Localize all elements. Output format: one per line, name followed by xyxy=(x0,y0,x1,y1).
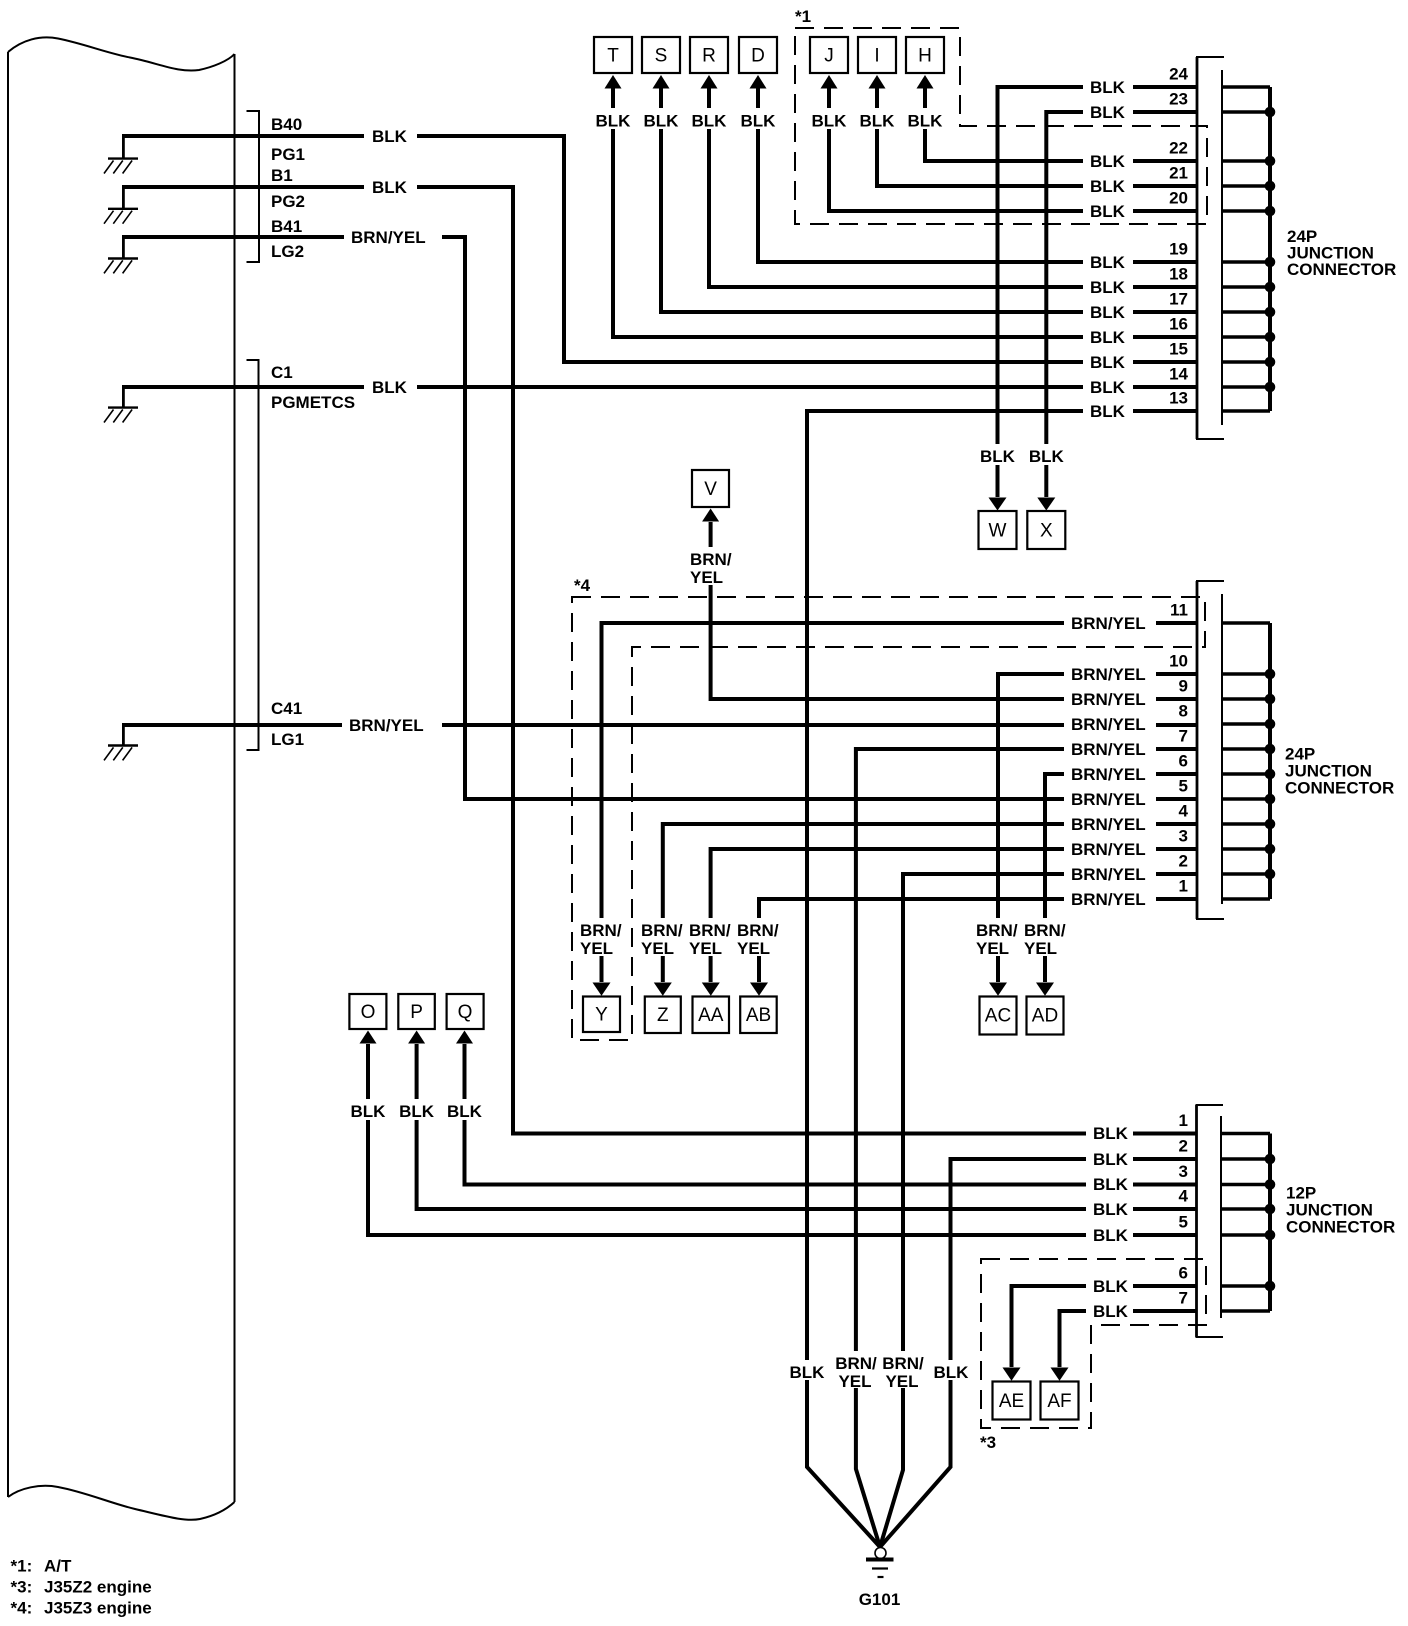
wire C41/LG1 BRN/YEL to 24P#2 pin 8 xyxy=(122,723,1197,727)
svg-text:6: 6 xyxy=(1179,752,1188,771)
svg-text:BRN/: BRN/ xyxy=(976,921,1018,940)
svg-text:BLK: BLK xyxy=(1090,177,1126,196)
svg-text:BLK: BLK xyxy=(1090,402,1126,421)
labels BLK at 12P pins xyxy=(1086,1123,1133,1321)
labels BLK above W X xyxy=(979,444,1065,466)
terminal box AB xyxy=(740,997,777,1034)
label BRN/YEL above V xyxy=(688,547,733,587)
svg-text:19: 19 xyxy=(1169,240,1188,259)
wire I to 24P#1 pin 21 xyxy=(877,88,1197,186)
svg-text:4: 4 xyxy=(1179,1187,1189,1206)
terminal box V xyxy=(692,470,729,507)
svg-text:BLK: BLK xyxy=(372,378,408,397)
svg-text:BRN/YEL: BRN/YEL xyxy=(1071,815,1146,834)
svg-text:YEL: YEL xyxy=(689,939,722,958)
terminal box W xyxy=(979,511,1017,549)
svg-text:BLK: BLK xyxy=(447,1102,483,1121)
wire 24P#1 pin 13 to G101 xyxy=(807,411,1197,1547)
arrowhead into J xyxy=(821,75,838,89)
arrowhead into X xyxy=(1037,498,1055,511)
svg-text:AA: AA xyxy=(698,1005,724,1026)
svg-text:BLK: BLK xyxy=(860,112,896,131)
svg-text:6: 6 xyxy=(1179,1264,1188,1283)
svg-text:BLK: BLK xyxy=(1093,1200,1129,1219)
svg-text:X: X xyxy=(1040,521,1053,542)
wire 24P#2 pin 2 to G101 xyxy=(880,874,1197,1547)
svg-text:YEL: YEL xyxy=(580,939,613,958)
svg-text:20: 20 xyxy=(1169,189,1188,208)
dashed region *3 (J35Z2 engine) xyxy=(981,1259,1206,1428)
terminal box D xyxy=(739,37,777,73)
label BLK on B1 wire xyxy=(364,176,417,197)
wire 24P#2 pin 11 to Y xyxy=(602,623,1198,982)
wire 24P#2 pin 6 to AD xyxy=(1045,774,1197,982)
svg-text:PG1: PG1 xyxy=(271,145,305,164)
svg-text:LG1: LG1 xyxy=(271,730,304,749)
label BLK on C1 wire xyxy=(364,376,417,397)
svg-text:18: 18 xyxy=(1169,265,1188,284)
svg-text:BRN/YEL: BRN/YEL xyxy=(1071,690,1146,709)
svg-text:BLK: BLK xyxy=(1090,103,1126,122)
svg-text:BRN/YEL: BRN/YEL xyxy=(1071,740,1146,759)
svg-text:BRN/: BRN/ xyxy=(689,921,731,940)
svg-text:YEL: YEL xyxy=(885,1372,918,1391)
arrowhead into S xyxy=(653,75,670,89)
svg-text:AD: AD xyxy=(1032,1006,1058,1027)
terminal box J xyxy=(810,37,848,73)
ground symbol at B41 xyxy=(104,237,138,273)
svg-text:BLK: BLK xyxy=(741,112,777,131)
wire D to 24P#1 pin 19 xyxy=(758,88,1197,262)
pin bracket B40..LG2 xyxy=(247,111,260,262)
pin numbers 12P xyxy=(1179,1111,1189,1308)
svg-text:G101: G101 xyxy=(859,1590,901,1609)
terminal box X xyxy=(1027,511,1065,549)
svg-text:BLK: BLK xyxy=(1090,378,1126,397)
svg-text:BLK: BLK xyxy=(1090,152,1126,171)
svg-text:13: 13 xyxy=(1169,389,1188,408)
arrowhead into O xyxy=(360,1031,377,1044)
svg-text:BRN/: BRN/ xyxy=(737,921,779,940)
svg-text:BLK: BLK xyxy=(1029,447,1065,466)
svg-text:24: 24 xyxy=(1169,65,1188,84)
svg-text:BRN/: BRN/ xyxy=(641,921,683,940)
terminal box Q xyxy=(447,994,484,1029)
arrowhead into T xyxy=(605,75,622,89)
junction connector 24P #2 bus junction dots xyxy=(1265,669,1276,880)
svg-text:BRN/YEL: BRN/YEL xyxy=(1071,865,1146,884)
ground symbol at B1 xyxy=(104,187,138,224)
svg-text:C41: C41 xyxy=(271,699,302,718)
arrowhead into AA xyxy=(702,983,720,996)
svg-text:BLK: BLK xyxy=(351,1102,387,1121)
svg-text:C1: C1 xyxy=(271,363,293,382)
svg-text:BLK: BLK xyxy=(1093,1226,1129,1245)
svg-text:5: 5 xyxy=(1179,1213,1188,1232)
svg-text:BLK: BLK xyxy=(908,112,944,131)
svg-text:PG2: PG2 xyxy=(271,192,305,211)
junction connector 24P #1 body xyxy=(1196,57,1224,439)
arrowhead into H xyxy=(917,75,934,89)
wire 24P#2 pin 4 to Z xyxy=(663,824,1197,982)
terminal box Y xyxy=(583,997,620,1033)
svg-text:14: 14 xyxy=(1169,365,1188,384)
wire 24P#2 pin 10 to AC xyxy=(998,674,1197,982)
svg-text:15: 15 xyxy=(1169,340,1188,359)
svg-text:B41: B41 xyxy=(271,217,302,236)
svg-text:CONNECTOR: CONNECTOR xyxy=(1286,1218,1395,1237)
svg-text:BRN/: BRN/ xyxy=(882,1354,924,1373)
arrowhead into AF xyxy=(1051,1368,1069,1381)
terminal box AF xyxy=(1041,1382,1079,1420)
labels BRN/YEL above AC AD xyxy=(974,918,1068,958)
ground symbol at B40 xyxy=(104,136,138,174)
svg-text:BLK: BLK xyxy=(1093,1302,1129,1321)
svg-text:BLK: BLK xyxy=(1090,328,1126,347)
svg-text:17: 17 xyxy=(1169,290,1188,309)
arrowhead into Z xyxy=(654,983,672,996)
svg-text:BRN/YEL: BRN/YEL xyxy=(349,716,424,735)
junction connector 12P bus xyxy=(1268,1134,1272,1312)
svg-text:P: P xyxy=(410,1002,423,1023)
arrowhead into I xyxy=(869,75,886,89)
junction connector 12P pin stubs xyxy=(1221,1134,1270,1312)
wire 24P#2 pin 3 to AA xyxy=(711,849,1197,982)
svg-text:BLK: BLK xyxy=(644,112,680,131)
svg-text:4: 4 xyxy=(1179,802,1189,821)
svg-text:CONNECTOR: CONNECTOR xyxy=(1287,260,1396,279)
svg-text:D: D xyxy=(751,46,765,67)
svg-text:PGMETCS: PGMETCS xyxy=(271,393,355,412)
wire 24P#2 pin 7 to G101 xyxy=(856,749,1197,1547)
arrowhead into AC xyxy=(989,983,1007,996)
terminal box O xyxy=(349,994,386,1029)
svg-text:BLK: BLK xyxy=(1093,1277,1129,1296)
svg-text:BRN/: BRN/ xyxy=(1024,921,1066,940)
svg-text:*4: *4 xyxy=(574,576,591,595)
svg-text:*4:: *4: xyxy=(11,1599,33,1618)
svg-text:BRN/YEL: BRN/YEL xyxy=(1071,840,1146,859)
svg-text:BRN/: BRN/ xyxy=(835,1354,877,1373)
svg-text:J35Z3 engine: J35Z3 engine xyxy=(44,1599,152,1618)
wire P to 12P pin 4 xyxy=(417,1044,1197,1209)
svg-text:I: I xyxy=(874,46,879,67)
wire V to 24P#2 pin 9 xyxy=(711,522,1197,699)
svg-text:J: J xyxy=(824,46,834,67)
wire 24P#2 pin 1 to AB xyxy=(759,899,1197,982)
svg-text:BLK: BLK xyxy=(812,112,848,131)
junction connector 24P #1 bus xyxy=(1268,87,1272,411)
svg-text:23: 23 xyxy=(1169,90,1188,109)
pin bracket C1..LG1 xyxy=(247,360,259,750)
wire O to 12P pin 5 xyxy=(368,1044,1197,1235)
svg-text:BRN/YEL: BRN/YEL xyxy=(1071,665,1146,684)
svg-text:BRN/YEL: BRN/YEL xyxy=(1071,614,1146,633)
ground symbol at C41 xyxy=(104,725,138,760)
wire J to 24P#1 pin 20 xyxy=(829,88,1197,211)
wire 12P pin 6 to AE xyxy=(1012,1286,1197,1367)
label 24P JUNCTION CONNECTOR #2 xyxy=(1285,745,1394,798)
svg-text:T: T xyxy=(607,46,619,67)
arrowhead into W xyxy=(989,498,1007,511)
svg-text:BLK: BLK xyxy=(1093,1150,1129,1169)
svg-text:BRN/YEL: BRN/YEL xyxy=(1071,890,1146,909)
svg-text:*3: *3 xyxy=(980,1433,996,1452)
svg-text:1: 1 xyxy=(1179,1111,1188,1130)
svg-text:BLK: BLK xyxy=(1093,1175,1129,1194)
svg-text:BLK: BLK xyxy=(692,112,728,131)
junction connector 12P body xyxy=(1196,1105,1224,1337)
junction connector 24P #2 bus xyxy=(1268,623,1272,899)
junction connector 24P #1 pin stubs xyxy=(1222,87,1270,411)
labels BLK above T S R D J I H xyxy=(593,108,945,131)
footnotes xyxy=(11,1557,152,1618)
wire 24P#1 pin 24 to W xyxy=(998,87,1198,497)
arrowhead into AE xyxy=(1003,1368,1021,1381)
svg-text:3: 3 xyxy=(1179,827,1188,846)
wire C1/PGMETCS BLK to 24P#1 pin 14 xyxy=(122,385,1197,389)
arrowhead into R xyxy=(701,75,718,89)
svg-text:BLK: BLK xyxy=(980,447,1016,466)
terminal box R xyxy=(690,37,728,73)
svg-text:BLK: BLK xyxy=(1093,1124,1129,1143)
label 24P JUNCTION CONNECTOR #1 xyxy=(1287,227,1396,279)
arrowhead into P xyxy=(408,1031,425,1044)
svg-text:*1:: *1: xyxy=(11,1557,33,1576)
svg-text:BLK: BLK xyxy=(1090,353,1126,372)
ground G101 symbol xyxy=(866,1548,894,1578)
svg-text:B40: B40 xyxy=(271,115,302,134)
svg-text:Y: Y xyxy=(595,1005,608,1026)
svg-text:BLK: BLK xyxy=(596,112,632,131)
svg-text:LG2: LG2 xyxy=(271,242,304,261)
svg-text:BLK: BLK xyxy=(1090,78,1126,97)
terminal box I xyxy=(858,37,896,73)
svg-text:BLK: BLK xyxy=(372,178,408,197)
wire 12P pin 2 to G101 xyxy=(880,1159,1197,1547)
svg-text:BLK: BLK xyxy=(372,127,408,146)
svg-text:B1: B1 xyxy=(271,166,293,185)
arrowhead into AD xyxy=(1036,983,1054,996)
arrowhead into Q xyxy=(456,1031,473,1044)
wire S to 24P#1 pin 17 xyxy=(661,88,1197,312)
svg-text:AB: AB xyxy=(746,1005,771,1026)
wire 24P#1 pin 23 to X xyxy=(1046,112,1197,497)
dashed region *1 (A/T) xyxy=(795,28,1207,224)
terminal box S xyxy=(642,37,680,73)
svg-text:AC: AC xyxy=(985,1006,1011,1027)
pin numbers 24P#1 xyxy=(1169,65,1188,408)
wire H to 24P#1 pin 22 xyxy=(925,88,1197,161)
labels BRN/YEL above Y Z AA AB xyxy=(578,918,781,958)
svg-text:YEL: YEL xyxy=(838,1372,871,1391)
svg-text:BRN/YEL: BRN/YEL xyxy=(351,228,426,247)
svg-text:BRN/YEL: BRN/YEL xyxy=(1071,715,1146,734)
svg-text:YEL: YEL xyxy=(1024,939,1057,958)
wire R to 24P#1 pin 18 xyxy=(709,88,1197,287)
svg-text:BLK: BLK xyxy=(790,1363,826,1382)
label BLK on B40 wire xyxy=(364,125,417,146)
svg-text:BLK: BLK xyxy=(399,1102,435,1121)
svg-text:11: 11 xyxy=(1170,601,1188,620)
svg-text:YEL: YEL xyxy=(737,939,770,958)
svg-text:AF: AF xyxy=(1047,1391,1071,1412)
svg-text:9: 9 xyxy=(1179,677,1188,696)
terminal box AC xyxy=(980,997,1017,1035)
wire B1/PG2 BLK to 12P pin 1 xyxy=(122,187,1197,1134)
ground symbol at C1 xyxy=(104,387,138,423)
svg-text:A/T: A/T xyxy=(44,1557,72,1576)
dashed region *4 (J35Z3 engine) xyxy=(572,597,1205,1040)
svg-text:BRN/YEL: BRN/YEL xyxy=(1071,790,1146,809)
pin name labels C41 LG1 xyxy=(271,699,304,749)
svg-text:1: 1 xyxy=(1179,877,1188,896)
wire 12P pin 7 to AF xyxy=(1060,1311,1197,1367)
terminal box AE xyxy=(993,1382,1031,1420)
svg-text:AE: AE xyxy=(999,1391,1024,1412)
junction connector 24P #1 bus junction dots xyxy=(1265,107,1276,393)
arrowhead into Y xyxy=(593,983,611,996)
svg-text:7: 7 xyxy=(1179,1289,1188,1308)
label BRN/YEL on B41 wire xyxy=(344,226,442,247)
svg-text:H: H xyxy=(918,46,932,67)
labels on G101 wires BLK BRN/YEL BRN/YEL BLK xyxy=(789,1351,970,1391)
svg-text:3: 3 xyxy=(1179,1162,1188,1181)
svg-text:10: 10 xyxy=(1169,652,1188,671)
pin name labels C1 PGMETCS xyxy=(271,363,355,412)
terminal box H xyxy=(906,37,944,73)
svg-text:O: O xyxy=(361,1002,376,1023)
pin numbers 24P#2 xyxy=(1169,601,1188,896)
svg-text:CONNECTOR: CONNECTOR xyxy=(1285,779,1394,798)
svg-text:7: 7 xyxy=(1179,727,1188,746)
svg-text:BLK: BLK xyxy=(1090,303,1126,322)
svg-text:YEL: YEL xyxy=(641,939,674,958)
arrowhead into V xyxy=(702,509,719,522)
labels BRN/YEL at 24P#2 pins xyxy=(1064,613,1156,909)
label BRN/YEL on C41 wire xyxy=(342,714,442,735)
wire B40/PG1 BLK to 24P#1 pin 15 xyxy=(122,136,1197,362)
labels BLK at 24P#1 pins xyxy=(1083,77,1133,421)
svg-text:J35Z2 engine: J35Z2 engine xyxy=(44,1578,152,1597)
svg-text:BRN/YEL: BRN/YEL xyxy=(1071,765,1146,784)
terminal box P xyxy=(398,994,435,1029)
svg-text:S: S xyxy=(655,46,668,67)
label 12P JUNCTION CONNECTOR xyxy=(1286,1184,1395,1237)
junction connector 12P bus junction dots xyxy=(1265,1154,1276,1292)
junction connector 24P #2 pin stubs xyxy=(1222,623,1270,899)
harness outline (PCM, torn edges) xyxy=(8,37,235,1519)
terminal box Z xyxy=(645,997,681,1034)
svg-text:YEL: YEL xyxy=(976,939,1009,958)
svg-text:BRN/: BRN/ xyxy=(690,550,732,569)
svg-text:*3:: *3: xyxy=(11,1578,33,1597)
svg-text:BRN/: BRN/ xyxy=(580,921,622,940)
wire Q to 12P pin 3 xyxy=(465,1044,1197,1185)
terminal box T xyxy=(594,37,632,73)
terminal box AA xyxy=(693,997,730,1034)
pin name labels B40 PG1 B1 PG2 B41 LG2 xyxy=(271,115,305,261)
arrowhead into AB xyxy=(750,983,768,996)
svg-text:BLK: BLK xyxy=(934,1363,970,1382)
svg-text:21: 21 xyxy=(1169,164,1188,183)
wire T to 24P#1 pin 16 xyxy=(613,88,1197,337)
svg-text:22: 22 xyxy=(1169,139,1188,158)
labels BLK below O P Q xyxy=(350,1099,483,1121)
terminal box AD xyxy=(1027,997,1064,1035)
svg-text:W: W xyxy=(989,521,1007,542)
svg-text:V: V xyxy=(704,479,717,500)
svg-text:8: 8 xyxy=(1179,702,1188,721)
wire B41/LG2 BRN/YEL to 24P#2 pin 5 xyxy=(122,237,1197,799)
svg-text:YEL: YEL xyxy=(690,568,723,587)
svg-text:BLK: BLK xyxy=(1090,253,1126,272)
svg-text:Z: Z xyxy=(657,1005,669,1026)
svg-text:BLK: BLK xyxy=(1090,202,1126,221)
svg-text:*1: *1 xyxy=(795,7,811,26)
junction connector 24P #2 body xyxy=(1196,581,1224,919)
svg-text:5: 5 xyxy=(1179,777,1188,796)
svg-text:2: 2 xyxy=(1179,1137,1188,1156)
svg-text:BLK: BLK xyxy=(1090,278,1126,297)
svg-text:16: 16 xyxy=(1169,315,1188,334)
svg-text:Q: Q xyxy=(458,1002,473,1023)
arrowhead into D xyxy=(750,75,767,89)
svg-text:R: R xyxy=(702,46,716,67)
svg-text:2: 2 xyxy=(1179,852,1188,871)
